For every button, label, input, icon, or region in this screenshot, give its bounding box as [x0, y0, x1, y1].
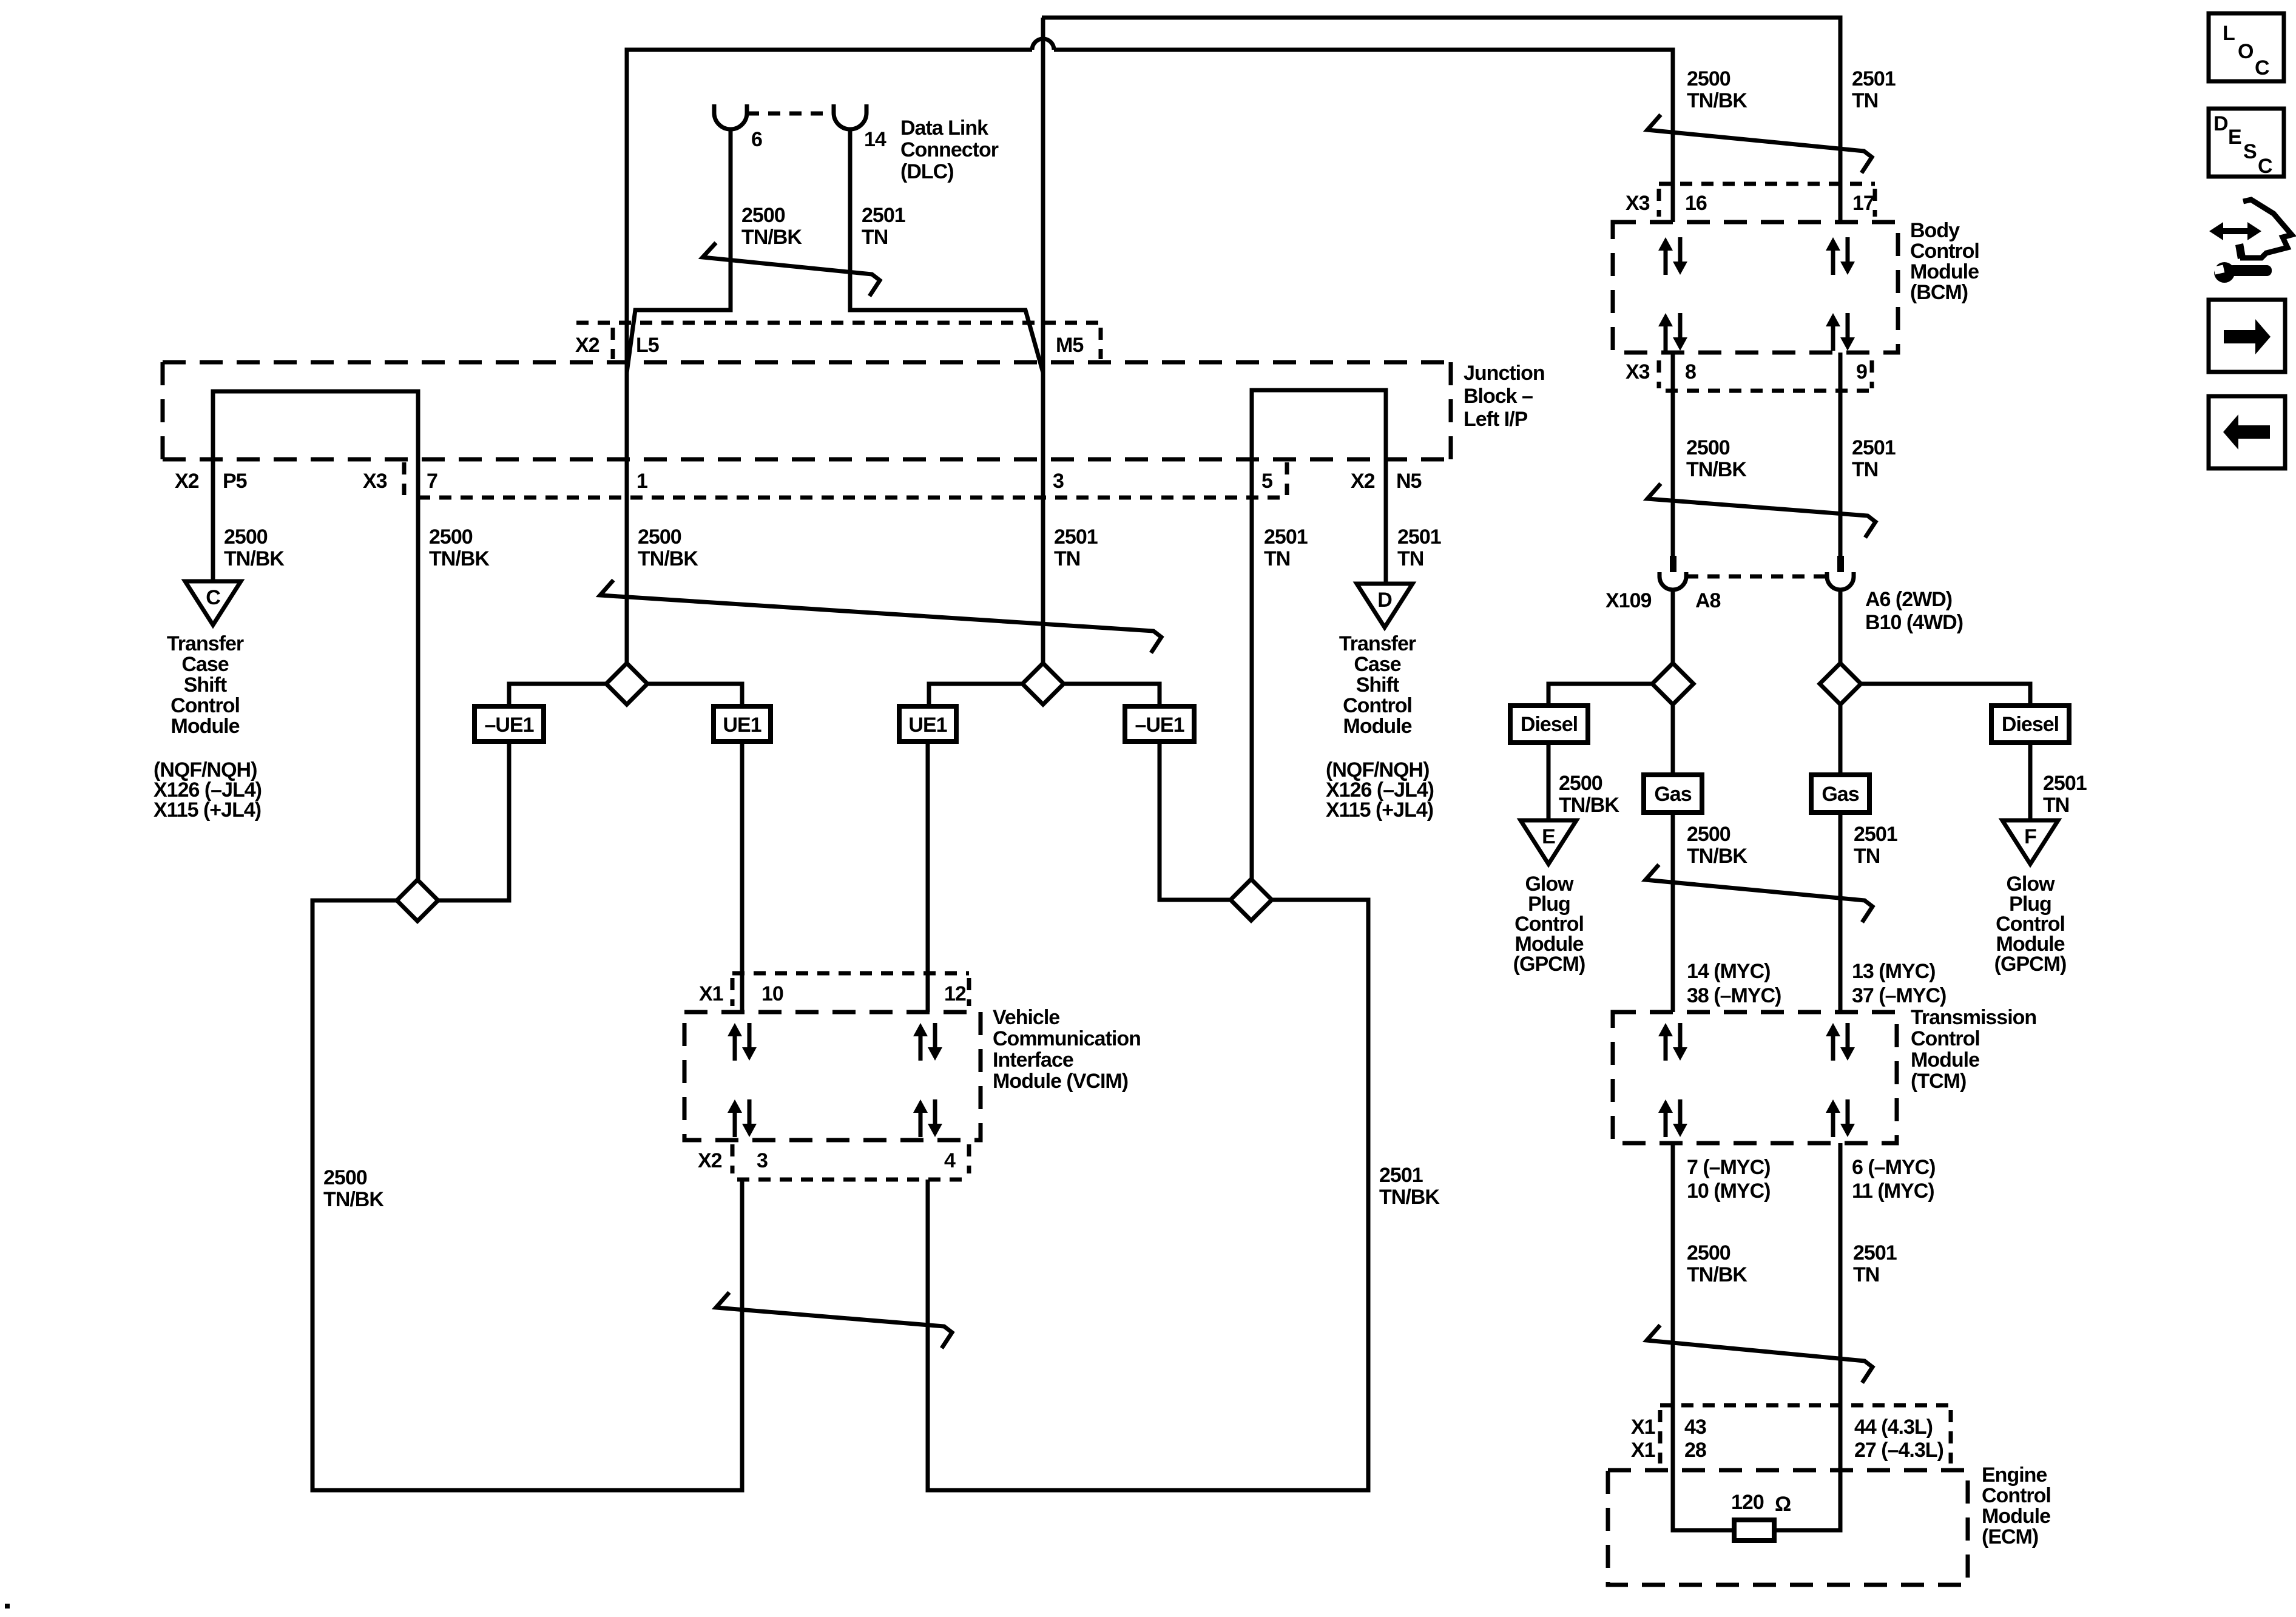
svg-text:B10 (4WD): B10 (4WD)	[1865, 611, 1963, 634]
svg-text:TN: TN	[1852, 89, 1878, 112]
wire: X109 A8 down to splice S5	[1671, 589, 1675, 663]
crossing indicator ECM upper	[1647, 1325, 1872, 1383]
icon back arrow box	[2209, 396, 2285, 468]
svg-text:Control: Control	[171, 694, 240, 717]
BCM pin row X3 8/9	[1666, 389, 1877, 393]
label Body Control Module (BCM)	[1910, 219, 1979, 304]
svg-text:M5: M5	[1056, 334, 1083, 357]
svg-text:Module: Module	[171, 715, 240, 738]
svg-text:10 (MYC): 10 (MYC)	[1687, 1180, 1770, 1203]
option box -UE1 left	[474, 706, 544, 741]
splice S3	[397, 880, 438, 921]
stray mark bottom left	[5, 1604, 10, 1609]
svg-text:Gas: Gas	[1654, 783, 1691, 806]
svg-text:D: D	[1377, 589, 1392, 612]
svg-text:Body: Body	[1910, 219, 1960, 242]
module box: BCM	[1613, 222, 1898, 353]
svg-text:Vehicle: Vehicle	[993, 1006, 1059, 1029]
splice S1	[606, 663, 647, 704]
option box -UE1 right	[1125, 706, 1194, 741]
svg-text:(BCM): (BCM)	[1910, 281, 1968, 304]
label Vehicle Communication Interface Module (VCIM)	[993, 1006, 1141, 1093]
wire: splice S1 right branch to UE1	[647, 684, 742, 706]
wire: DLC pin 14 drop 2501 TN	[850, 129, 1043, 373]
svg-text:S: S	[2243, 140, 2257, 163]
splice S6	[1820, 663, 1861, 704]
option box UE1 left	[714, 706, 771, 741]
wire: splice S6 right branch to Diesel	[1861, 684, 2030, 706]
off-page triangle C	[185, 581, 241, 625]
svg-text:C: C	[2258, 155, 2272, 178]
label Transfer Case Shift Control Module right	[1339, 632, 1416, 738]
svg-text:TN/BK: TN/BK	[1687, 1263, 1747, 1286]
splice S4	[1231, 879, 1272, 920]
svg-text:10: 10	[761, 982, 783, 1005]
crossing indicator DLC	[703, 243, 880, 296]
junction block top pin row	[576, 321, 1098, 325]
off-page triangle F	[2002, 820, 2058, 864]
wire: splice S6 down to Gas	[1838, 704, 1843, 775]
svg-text:2500: 2500	[429, 525, 473, 549]
bidirectional data arrows TCM	[1658, 1023, 1687, 1061]
svg-text:44 (4.3L): 44 (4.3L)	[1854, 1416, 1933, 1439]
icon connector outline	[2240, 200, 2292, 258]
svg-text:Diesel: Diesel	[2002, 713, 2059, 736]
bidirectional data arrows TCM	[1826, 1023, 1855, 1061]
svg-text:D: D	[2213, 112, 2228, 135]
connector: X109 male pin A6	[1837, 556, 1844, 572]
svg-text:2500: 2500	[638, 525, 681, 549]
svg-text:X2: X2	[698, 1149, 722, 1172]
connector: X109 cavity A6	[1827, 572, 1854, 590]
svg-text:TN: TN	[862, 226, 888, 249]
svg-text:UE1: UE1	[723, 714, 761, 737]
svg-text:Gas: Gas	[1822, 783, 1859, 806]
wire: -UE1 down to splice S4	[1160, 741, 1231, 900]
svg-text:X3: X3	[363, 470, 387, 493]
bidirectional data arrows VCIM	[913, 1023, 942, 1061]
svg-text:1: 1	[636, 470, 647, 493]
icon DESC box	[2209, 109, 2284, 178]
label NQF/NQH options right	[1326, 758, 1434, 822]
svg-text:X2: X2	[1351, 470, 1375, 493]
icon forward arrow box	[2209, 300, 2285, 372]
option box Diesel right	[1991, 706, 2069, 743]
crossing indicator BCM lower	[1647, 484, 1876, 538]
svg-text:28: 28	[1684, 1439, 1706, 1462]
label NQF/NQH options left	[154, 758, 262, 822]
bidirectional data arrows TCM	[1826, 1099, 1855, 1137]
svg-text:2500: 2500	[1687, 1241, 1730, 1264]
svg-text:Module: Module	[1910, 260, 1979, 283]
svg-text:X115 (+JL4): X115 (+JL4)	[154, 798, 261, 822]
crossing indicator junction block lower	[600, 580, 1161, 653]
svg-text:C: C	[206, 586, 220, 609]
wire: -UE1 down to splice S3	[438, 741, 509, 900]
svg-text:X1: X1	[1631, 1439, 1655, 1462]
svg-text:L: L	[2223, 22, 2235, 45]
svg-text:UE1: UE1	[908, 714, 947, 737]
icon wrench	[2213, 262, 2272, 283]
module box: VCIM	[684, 1012, 981, 1140]
splice S5	[1652, 663, 1693, 704]
svg-text:A6 (2WD): A6 (2WD)	[1865, 588, 1952, 611]
svg-text:TN: TN	[1264, 547, 1290, 570]
svg-text:Block –: Block –	[1464, 385, 1533, 408]
wire: splice S5 left branch to Diesel	[1548, 684, 1652, 706]
bidirectional data arrows VCIM	[728, 1099, 757, 1137]
crossing indicator BCM upper	[1647, 115, 1872, 173]
svg-text:Ω: Ω	[1775, 1493, 1791, 1516]
svg-text:8: 8	[1685, 360, 1696, 383]
label 120 ohm	[1731, 1491, 1791, 1516]
svg-text:X115 (+JL4): X115 (+JL4)	[1326, 798, 1433, 822]
svg-text:12: 12	[944, 982, 966, 1005]
wire: BCM pin 9 down to X109	[1838, 353, 1843, 556]
svg-text:–UE1: –UE1	[1135, 714, 1184, 737]
svg-text:Case: Case	[181, 653, 228, 676]
svg-text:Interface: Interface	[993, 1048, 1073, 1072]
svg-text:Data Link: Data Link	[900, 116, 988, 140]
svg-text:Transfer: Transfer	[1339, 632, 1416, 655]
wire: DLC dashed tie	[747, 112, 834, 116]
svg-text:11 (MYC): 11 (MYC)	[1852, 1180, 1934, 1203]
svg-text:2500: 2500	[1687, 823, 1730, 846]
bidirectional data arrows VCIM	[913, 1099, 942, 1137]
svg-text:2501: 2501	[1379, 1164, 1423, 1187]
svg-text:TN/BK: TN/BK	[1687, 845, 1747, 868]
module box: ECM	[1608, 1470, 1968, 1585]
svg-text:3: 3	[1053, 470, 1064, 493]
svg-text:(GPCM): (GPCM)	[1994, 953, 2067, 976]
svg-text:TN/BK: TN/BK	[1687, 89, 1747, 112]
svg-text:Transfer: Transfer	[167, 632, 244, 655]
connector: X109 cavity A8	[1660, 572, 1686, 590]
svg-text:2501: 2501	[1854, 823, 1897, 846]
svg-text:2501: 2501	[1264, 525, 1308, 549]
junction block bottom pin row	[418, 496, 1285, 500]
wire: Gas down to TCM pin 14	[1671, 812, 1675, 1012]
svg-text:A8: A8	[1695, 589, 1721, 612]
wire: splice S1 left branch to -UE1	[509, 684, 606, 706]
svg-text:X109: X109	[1606, 589, 1651, 612]
icon LOC box	[2209, 13, 2284, 81]
bidirectional data arrows BCM	[1658, 237, 1687, 275]
svg-text:2501: 2501	[1852, 436, 1896, 459]
svg-text:2500: 2500	[1559, 772, 1602, 795]
bidirectional data arrows BCM	[1826, 313, 1855, 351]
svg-text:TN: TN	[1853, 1263, 1879, 1286]
wire: X109 A6 down to splice S6	[1838, 589, 1843, 663]
svg-text:TN/BK: TN/BK	[224, 547, 285, 570]
wire: hop over bus B	[1032, 39, 1054, 50]
svg-text:7: 7	[427, 470, 437, 493]
svg-text:Module: Module	[1911, 1048, 1979, 1072]
svg-text:X3: X3	[1626, 360, 1650, 383]
svg-text:O: O	[2238, 40, 2254, 63]
svg-text:43: 43	[1684, 1416, 1706, 1439]
svg-text:Shift: Shift	[184, 673, 227, 697]
connector: X109 male pin A8	[1670, 556, 1676, 572]
label Transfer Case Shift Control Module left	[167, 632, 244, 738]
svg-text:17: 17	[1852, 192, 1874, 215]
wire: serial data bus B (junction block M5 / pin 3)	[1041, 18, 1045, 663]
resistor: 120 ohm terminating	[1734, 1520, 1774, 1541]
svg-text:14: 14	[864, 128, 886, 151]
wire: top 2501 bus (DLC M5 branch to BCM pin 17)	[1042, 18, 1840, 222]
svg-text:2500: 2500	[323, 1166, 367, 1189]
svg-text:C: C	[2255, 56, 2269, 79]
module box: TCM	[1613, 1012, 1897, 1143]
svg-text:Engine: Engine	[1982, 1463, 2047, 1487]
svg-text:TN/BK: TN/BK	[429, 547, 490, 570]
wire: 2501 TN/BK loop to VCIM pin 4	[928, 900, 1368, 1490]
svg-text:(TCM): (TCM)	[1911, 1070, 1966, 1093]
option box Gas right	[1811, 775, 1869, 812]
svg-text:Case: Case	[1354, 653, 1400, 676]
svg-text:Module (VCIM): Module (VCIM)	[993, 1070, 1128, 1093]
svg-text:TN: TN	[1054, 547, 1080, 570]
label Transmission Control Module (TCM)	[1911, 1006, 2036, 1093]
svg-text:F: F	[2024, 825, 2036, 848]
bidirectional data arrows TCM	[1658, 1099, 1687, 1137]
svg-text:X1: X1	[1631, 1416, 1655, 1439]
svg-text:38 (–MYC): 38 (–MYC)	[1687, 984, 1781, 1007]
junction block outline	[163, 360, 1451, 365]
ECM pin row X1 43/28	[1660, 1403, 1951, 1408]
wire: TCM pin 6 down through ECM to resistor	[1774, 1143, 1840, 1530]
svg-text:Control: Control	[1343, 694, 1412, 717]
svg-text:P5: P5	[223, 470, 247, 493]
svg-text:5: 5	[1261, 470, 1272, 493]
svg-text:37 (–MYC): 37 (–MYC)	[1852, 984, 1946, 1007]
icon double arrow	[2209, 222, 2261, 240]
bidirectional data arrows BCM	[1658, 313, 1687, 351]
BCM pin row X3 16/17	[1659, 182, 1875, 186]
svg-text:(DLC): (DLC)	[900, 160, 954, 183]
svg-text:2501: 2501	[1852, 67, 1896, 90]
svg-text:Left I/P: Left I/P	[1464, 408, 1528, 431]
svg-text:Module: Module	[1982, 1505, 2050, 1528]
wire: UE1 down to VCIM pin 12	[926, 741, 930, 1012]
wire: junction block internal P5 to pin 7	[213, 391, 418, 880]
svg-text:TN/BK: TN/BK	[741, 226, 802, 249]
svg-text:120: 120	[1731, 1491, 1764, 1514]
off-page triangle D	[1357, 584, 1413, 627]
svg-text:TN: TN	[2043, 794, 2069, 817]
svg-text:27 (–4.3L): 27 (–4.3L)	[1854, 1439, 1943, 1462]
svg-text:N5: N5	[1396, 470, 1422, 493]
svg-text:Control: Control	[1982, 1484, 2051, 1507]
svg-text:X1: X1	[699, 982, 723, 1005]
svg-text:2501: 2501	[1853, 1241, 1897, 1264]
svg-text:(GPCM): (GPCM)	[1513, 953, 1585, 976]
svg-text:2501: 2501	[2043, 772, 2087, 795]
off-page triangle E	[1521, 820, 1576, 864]
svg-text:Connector: Connector	[900, 138, 999, 161]
wire: Diesel down to GPCM F	[2028, 743, 2033, 820]
svg-text:TN/BK: TN/BK	[1559, 794, 1619, 817]
VCIM pin row X2 3/4	[737, 1178, 969, 1182]
label Junction Block - Left I/P	[1464, 362, 1545, 431]
svg-text:Transmission: Transmission	[1911, 1006, 2036, 1029]
svg-text:X2: X2	[175, 470, 199, 493]
wire: 2500 TN/BK horizontal to BCM pin 16	[1054, 50, 1673, 222]
svg-text:13 (MYC): 13 (MYC)	[1852, 960, 1935, 983]
wire: X109 dashed tie	[1686, 575, 1827, 579]
bidirectional data arrows VCIM	[728, 1023, 757, 1061]
svg-text:2501: 2501	[862, 204, 905, 227]
option box UE1 right	[899, 706, 956, 741]
svg-text:16: 16	[1685, 192, 1707, 215]
wire: 2500 TN/BK loop to VCIM pin 3	[312, 900, 742, 1490]
VCIM pin row X1 10/12	[732, 971, 969, 976]
label Data Link Connector (DLC)	[900, 116, 999, 183]
svg-text:Control: Control	[1911, 1027, 1980, 1050]
svg-text:6: 6	[751, 128, 762, 151]
svg-text:2500: 2500	[1686, 436, 1730, 459]
splice S2	[1022, 663, 1064, 704]
wire: Diesel down to GPCM E	[1547, 743, 1551, 820]
label Engine Control Module (ECM)	[1982, 1463, 2051, 1548]
svg-text:(ECM): (ECM)	[1982, 1525, 2038, 1548]
svg-text:TN: TN	[1397, 547, 1423, 570]
svg-text:Junction: Junction	[1464, 362, 1545, 385]
connector: DLC cavity 6	[714, 104, 747, 129]
svg-text:E: E	[2228, 126, 2241, 149]
svg-text:Module: Module	[1343, 715, 1412, 738]
svg-text:2501: 2501	[1397, 525, 1441, 549]
svg-text:Control: Control	[1910, 240, 1979, 263]
svg-text:TN/BK: TN/BK	[323, 1188, 384, 1211]
svg-text:14 (MYC): 14 (MYC)	[1687, 960, 1770, 983]
svg-text:E: E	[1542, 825, 1555, 848]
svg-text:Diesel: Diesel	[1521, 713, 1578, 736]
wire: Gas down to TCM pin 13	[1838, 812, 1843, 1012]
crossing indicator VCIM lower	[716, 1292, 952, 1348]
label Glow Plug Control Module (GPCM) left	[1513, 873, 1585, 976]
bidirectional data arrows BCM	[1826, 237, 1855, 275]
svg-text:TN/BK: TN/BK	[1379, 1186, 1440, 1209]
svg-text:TN/BK: TN/BK	[638, 547, 698, 570]
crossing indicator TCM upper	[1646, 865, 1872, 922]
connector: DLC cavity 14	[834, 104, 866, 129]
svg-text:9: 9	[1856, 360, 1867, 383]
svg-text:TN: TN	[1852, 458, 1878, 481]
wire: serial data bus A (junction block L5 / pin 1) with horizontal to BCM	[627, 50, 1032, 663]
wire: DLC pin 6 drop 2500 TN/BK	[627, 129, 731, 373]
svg-text:3: 3	[757, 1149, 768, 1172]
option box Gas left	[1644, 775, 1702, 812]
wire: splice S5 down to Gas	[1671, 704, 1675, 775]
option box Diesel left	[1510, 706, 1588, 743]
wire: BCM pin 8 down to X109	[1671, 353, 1675, 556]
icon connector cuff	[2235, 243, 2246, 259]
svg-text:Shift: Shift	[1356, 673, 1399, 697]
svg-text:L5: L5	[636, 334, 659, 357]
svg-text:TN: TN	[1854, 845, 1880, 868]
wire: UE1 down to VCIM pin 10	[740, 741, 745, 1012]
svg-text:2500: 2500	[1687, 67, 1730, 90]
svg-text:7 (–MYC): 7 (–MYC)	[1687, 1156, 1770, 1179]
svg-text:2500: 2500	[741, 204, 785, 227]
svg-text:2500: 2500	[224, 525, 268, 549]
wire: splice S2 left branch to UE1	[929, 684, 1022, 706]
wire: splice S2 right branch to -UE1	[1064, 684, 1160, 706]
svg-text:TN/BK: TN/BK	[1686, 458, 1747, 481]
wire: TCM pin 7 down through ECM to resistor	[1673, 1143, 1734, 1530]
svg-text:4: 4	[944, 1149, 956, 1172]
svg-text:X2: X2	[575, 334, 599, 357]
label Glow Plug Control Module (GPCM) right	[1994, 873, 2067, 976]
svg-text:2501: 2501	[1054, 525, 1098, 549]
svg-text:Communication: Communication	[993, 1027, 1141, 1050]
svg-text:X3: X3	[1626, 192, 1650, 215]
wire: junction block internal N5 to pin 5	[1252, 390, 1386, 879]
svg-text:–UE1: –UE1	[484, 714, 533, 737]
svg-text:6 (–MYC): 6 (–MYC)	[1852, 1156, 1935, 1179]
